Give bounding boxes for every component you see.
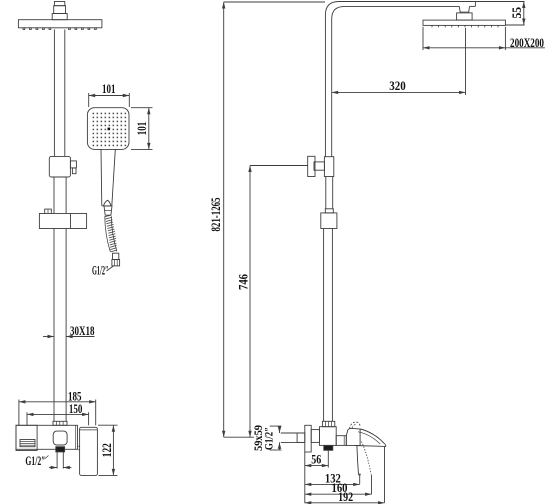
lever handle (front) — [80, 427, 98, 475]
hose connector taper — [104, 206, 112, 215]
flexible hose coil — [105, 215, 117, 252]
inlet pipe — [281, 432, 305, 434]
handle step notch — [78, 446, 80, 450]
dim 56 — [327, 451, 329, 468]
svg-text:55: 55 — [510, 7, 524, 18]
svg-text:746: 746 — [236, 274, 250, 290]
hand shower dim 101 (top): extension lines — [88, 93, 90, 107]
dim 821-1265 — [224, 1, 325, 3]
lever (side, dashed) — [350, 422, 361, 429]
shower arm inner line — [332, 6, 460, 30]
svg-text:122: 122 — [100, 443, 114, 457]
wire: rail between collar and bracket — [53, 177, 55, 214]
ribbed joint (side) — [322, 421, 334, 426]
aerator outlet block — [56, 447, 65, 452]
side knob disc — [308, 156, 315, 176]
side collar block — [324, 157, 333, 177]
side knob stem — [314, 162, 324, 170]
flange-body connector — [311, 430, 319, 443]
svg-text:G1/2″: G1/2″ — [25, 454, 45, 468]
side rail mid — [325, 177, 327, 209]
overhead shower head plate — [18, 20, 102, 28]
overhead shower: connector base — [52, 14, 67, 20]
head ball joint block — [457, 13, 473, 20]
svg-text:G1/2″: G1/2″ — [92, 264, 109, 278]
outlet dim (G1/2) arrows — [49, 467, 57, 469]
bracket clip notch — [45, 209, 52, 213]
dim line 101 top — [89, 95, 130, 97]
head connector stem — [459, 6, 469, 12]
shower arm: outer bend + top line (extends as ext line for 55) — [325, 2, 524, 31]
spout housing (left box) — [16, 425, 37, 450]
dim 160 — [371, 475, 373, 495]
spout hidden edge (dotted) — [362, 442, 371, 475]
handle end cone — [103, 200, 111, 206]
inlet dim arrows — [279, 426, 281, 433]
body inner right edge — [75, 425, 77, 449]
spout falling edge (solid) — [357, 446, 359, 475]
hose label G1/2 leader — [107, 266, 114, 271]
svg-text:G1/2″: G1/2″ — [264, 427, 276, 450]
mixer body (front) — [16, 425, 78, 449]
svg-text:56: 56 — [311, 453, 321, 467]
side riser pipe — [324, 30, 326, 157]
wall flange — [305, 425, 311, 452]
spout blade inner edge — [358, 432, 380, 444]
left reference line for bottom dims — [304, 452, 306, 503]
hose side outline — [105, 216, 110, 251]
spout grill — [20, 440, 35, 447]
svg-text:101: 101 — [102, 82, 116, 96]
dim 192 — [384, 447, 386, 503]
label G1/2 front mixer — [45, 456, 49, 460]
dim 320 — [465, 28, 467, 95]
collar knob (right) — [70, 161, 76, 168]
side small collar — [325, 209, 333, 213]
dim line 101 right — [148, 108, 150, 150]
dim 746 — [250, 165, 308, 167]
outlet stub — [56, 452, 58, 469]
svg-text:192: 192 — [338, 490, 353, 504]
overhead shower: top connector — [54, 2, 64, 6]
ext line at inlet center — [224, 436, 254, 438]
spout knuckle — [346, 428, 360, 445]
inlet dim ticks — [270, 425, 282, 427]
wire: upper riser pipe — [53, 30, 55, 157]
cartridge cover — [53, 431, 67, 445]
head nozzle ticks — [432, 25, 498, 27]
svg-text:30X18: 30X18 — [70, 324, 95, 338]
hose nut — [113, 253, 119, 259]
wire: lower rail down to mixer — [53, 229, 55, 422]
side lower rail — [323, 229, 325, 422]
dim 200X200 — [422, 27, 424, 50]
overhead head slab (side) — [423, 20, 505, 25]
slider collar on riser — [49, 156, 70, 177]
svg-text:101: 101 — [135, 122, 149, 136]
dim 122 — [98, 424, 118, 426]
hand shower spray dots — [93, 113, 127, 147]
ribbed pipe joint — [53, 421, 67, 425]
arm end cap — [474, 2, 476, 7]
spout blade bottom edge — [354, 445, 384, 448]
spout connector ring — [336, 436, 346, 446]
side bracket block — [321, 213, 337, 229]
dim 30X18 on rail — [43, 336, 54, 338]
svg-text:200X200: 200X200 — [510, 36, 544, 50]
hand shower dim 101 (right): extension lines — [131, 107, 153, 109]
svg-text:320: 320 — [389, 79, 406, 93]
hand shower head — [87, 108, 129, 150]
overhead shower nozzles — [23, 28, 25, 30]
spout blade top edge — [360, 429, 384, 443]
arm lower line right of stem — [470, 5, 476, 7]
inlet nut — [297, 433, 305, 442]
aerator (side) — [324, 445, 333, 450]
mixer body (side) — [320, 427, 337, 446]
svg-text:821-1265: 821-1265 — [209, 198, 223, 232]
dim 55 — [505, 24, 524, 26]
slide-rail bracket — [39, 214, 86, 229]
spout blade tip — [384, 443, 386, 446]
dim 132 — [359, 474, 361, 485]
hand shower handle — [100, 149, 103, 206]
